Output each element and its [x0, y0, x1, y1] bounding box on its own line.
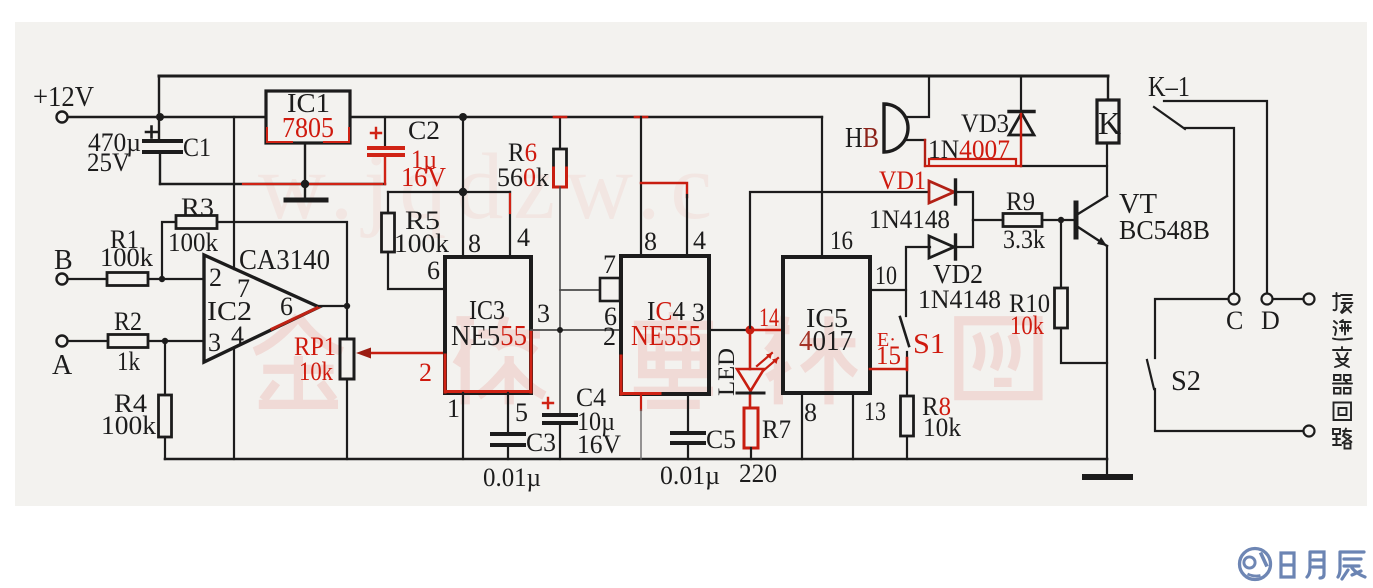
svg-text:B: B: [54, 245, 73, 276]
wire IC4 pin4 jog red: [641, 183, 687, 197]
svg-text:1N4148: 1N4148: [869, 205, 950, 234]
resistor R1: [68, 278, 204, 280]
svg-text:100k: 100k: [168, 228, 218, 257]
svg-text:25V: 25V: [87, 148, 130, 177]
svg-text:K–1: K–1: [1148, 72, 1190, 103]
resistor R10: [1061, 220, 1107, 363]
switch S1: [905, 290, 907, 316]
svg-text:1N4007: 1N4007: [928, 135, 1010, 164]
wire +12V to IC1: [68, 116, 266, 118]
svg-text:1N4148: 1N4148: [918, 285, 1001, 314]
svg-text:8: 8: [644, 227, 657, 256]
wire C1 bottom: [159, 154, 161, 184]
label 逆: [1333, 320, 1352, 340]
terminal +12V: [57, 112, 68, 123]
svg-text:2: 2: [209, 263, 222, 292]
wire top +12V rail: [159, 75, 1108, 78]
svg-text:BC548B: BC548B: [1119, 215, 1210, 245]
wire IC3 pin4 drop: [509, 192, 511, 257]
svg-text:HB: HB: [845, 123, 879, 154]
svg-text:5: 5: [515, 398, 528, 427]
svg-text:C: C: [1226, 306, 1243, 335]
svg-text:7805: 7805: [282, 113, 334, 144]
wire D to output terminal: [1273, 298, 1303, 300]
logo text 月: [1307, 552, 1324, 578]
logo text 日: [1281, 552, 1365, 579]
svg-text:IC2: IC2: [207, 296, 252, 326]
svg-text:C3: C3: [526, 428, 556, 457]
LED D1: [749, 330, 752, 408]
resistor R2: [68, 340, 204, 342]
IC1 7805 box: [266, 91, 350, 143]
svg-text:0.01µ: 0.01µ: [483, 463, 541, 492]
svg-text:4: 4: [693, 226, 706, 255]
wire node up to VD1 line: [750, 192, 929, 330]
svg-text:w.jqdzw.c: w.jqdzw.c: [258, 135, 722, 239]
capacitor C2: [384, 117, 386, 145]
capacitor C3: [507, 393, 509, 459]
wire IC4 pin1: [640, 394, 642, 410]
svg-text:100k: 100k: [101, 411, 156, 440]
node IC1 ground junction: [301, 180, 309, 188]
logo text 辰: [1338, 552, 1365, 579]
svg-text:C5: C5: [706, 425, 736, 454]
svg-text:R3: R3: [181, 193, 214, 222]
relay K: [1107, 76, 1109, 100]
svg-text:13: 13: [864, 397, 886, 426]
svg-text:CA3140: CA3140: [239, 245, 330, 276]
svg-text:R2: R2: [114, 307, 142, 336]
label 器: [1333, 375, 1352, 394]
resistor R5: [388, 192, 445, 289]
svg-text:6: 6: [427, 256, 440, 285]
IC3 NE555 box: [445, 257, 531, 393]
resistor R9: [973, 219, 1074, 221]
resistor R3: [162, 222, 347, 339]
svg-text:C1: C1: [183, 133, 211, 162]
svg-text:R7: R7: [762, 415, 791, 444]
wire IC5 pin13: [852, 393, 854, 459]
wire IC5 pin15 red: [870, 358, 907, 370]
svg-text:16: 16: [830, 226, 853, 255]
terminal A: [57, 336, 68, 347]
wire ground rail under IC1: [160, 183, 385, 185]
watermark row2 faint glyphs: [254, 312, 1038, 404]
wire IC4 pin3 out: [709, 329, 750, 331]
wire C1 top drop: [158, 76, 160, 139]
svg-text:100k: 100k: [100, 243, 153, 272]
svg-text:4: 4: [517, 223, 530, 252]
resistor R6: [559, 117, 561, 149]
wire RP1 wiper red to IC3 pin2: [362, 352, 445, 355]
node LED/pin14 junction red: [746, 326, 755, 335]
wire op-amp ground drop (pin4): [233, 348, 235, 459]
wire op-amp V+ drop (pin7): [233, 117, 235, 269]
label 接 (connect): [1333, 293, 1353, 313]
resistor R8: [901, 396, 914, 436]
svg-text:10k: 10k: [1010, 311, 1044, 340]
svg-text:16V: 16V: [577, 430, 621, 459]
wire +5V rail from IC1: [350, 116, 822, 118]
buzzer HB: [884, 104, 908, 152]
svg-text:8: 8: [468, 229, 481, 258]
svg-text:C2: C2: [408, 116, 440, 145]
logo mark circle: [1240, 549, 1271, 580]
wire +5V drop IC5 pin16: [821, 117, 823, 257]
node R1/R3 junction: [159, 276, 165, 282]
svg-text:7: 7: [603, 250, 616, 279]
label 变: [1333, 347, 1351, 367]
wire +5V to R5/pin8: [388, 117, 510, 192]
svg-text:0.01µ: 0.01µ: [660, 461, 720, 490]
svg-text:4017: 4017: [799, 326, 853, 357]
wire IC3 pin3 to IC4: [531, 329, 621, 331]
svg-text:3: 3: [537, 299, 550, 328]
svg-text:VD3: VD3: [961, 109, 1009, 138]
svg-text:6: 6: [280, 292, 293, 321]
svg-text:LED: LED: [714, 348, 739, 396]
diode VD1: [929, 181, 954, 203]
ground (right, main): [1085, 474, 1130, 480]
wire IC1 ground pin: [304, 143, 306, 184]
transistor VT BC548B: [1074, 203, 1079, 237]
terminal C: [1229, 294, 1240, 305]
diode VD3: [1020, 76, 1022, 110]
svg-text:3.3k: 3.3k: [1003, 225, 1045, 254]
svg-text:14: 14: [759, 303, 779, 332]
svg-text:S2: S2: [1171, 366, 1201, 397]
IC4 pin7 small box: [600, 278, 620, 301]
svg-text:10: 10: [875, 261, 897, 290]
svg-text:2: 2: [419, 358, 432, 387]
capacitor C5: [687, 394, 689, 459]
svg-text:560k: 560k: [497, 163, 549, 192]
op-amp U-IC2 CA3140 triangle: [204, 255, 319, 362]
ground rail main: [165, 458, 1107, 461]
wire IC4 pin8 drop: [640, 117, 642, 256]
svg-text:+12V: +12V: [33, 82, 94, 113]
IC4 NE555 box: [621, 256, 709, 394]
wire to IC4 pin7: [560, 289, 600, 291]
svg-text:S1: S1: [913, 329, 945, 360]
svg-text:16V: 16V: [401, 162, 446, 192]
svg-text:1k: 1k: [117, 347, 140, 376]
label 路: [1333, 429, 1352, 449]
svg-text:1: 1: [447, 394, 460, 423]
svg-text:R9: R9: [1006, 187, 1035, 216]
svg-text:2: 2: [603, 322, 616, 351]
capacitor C4: [544, 415, 576, 423]
wire op-amp output: [319, 305, 347, 307]
terminal D: [1262, 294, 1273, 305]
switch S2: [1147, 299, 1303, 431]
terminal B: [57, 274, 68, 285]
svg-text:10k: 10k: [923, 413, 961, 442]
wire red net HB/VD3/K: [925, 159, 1021, 166]
svg-text:8: 8: [804, 398, 817, 427]
svg-text:K: K: [1098, 105, 1121, 141]
wire red to IC5 pin14: [750, 329, 783, 332]
IC5 4017 box: [783, 257, 870, 393]
resistor R7: [744, 408, 758, 448]
wire IC3 pin1: [462, 393, 464, 459]
capacitor C1: [144, 141, 181, 152]
svg-text:3: 3: [208, 328, 221, 357]
svg-text:220: 220: [739, 459, 777, 488]
svg-text:D: D: [1261, 306, 1280, 335]
svg-text:10k: 10k: [299, 357, 333, 386]
svg-text:NE555: NE555: [451, 321, 527, 352]
svg-text:NE555: NE555: [631, 321, 701, 352]
wire IC5 pin8: [801, 393, 803, 459]
ground (under IC1): [286, 198, 326, 203]
svg-text:A: A: [52, 350, 73, 381]
potentiometer RP1: [340, 339, 354, 379]
svg-text:15: 15: [876, 341, 901, 370]
diode VD2: [929, 236, 954, 258]
svg-text:VD1: VD1: [879, 166, 926, 195]
svg-text:100k: 100k: [394, 229, 449, 258]
wire IC3 pin8 drop: [462, 192, 464, 257]
svg-text:4: 4: [231, 321, 244, 350]
resistor R4: [164, 341, 166, 459]
node +12V/C1 junction: [156, 113, 164, 121]
switch K-1: [1154, 101, 1267, 293]
wire IC5 pin10 to VD2: [870, 247, 930, 290]
label 回: [1334, 403, 1352, 421]
